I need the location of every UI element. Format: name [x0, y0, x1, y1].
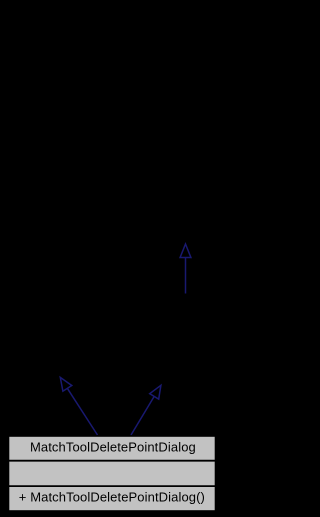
inheritance arrow (grandparent edge, vertical) — [180, 244, 191, 294]
compartment separator 1 — [8, 460, 216, 462]
compartment separator 2 — [8, 485, 216, 487]
inheritance arrow to right parent — [131, 385, 161, 435]
inheritance arrow to left parent — [60, 377, 97, 435]
class box MatchToolDeletePointDialog — [9, 436, 216, 511]
svg-text:+ MatchToolDeletePointDialog(): + MatchToolDeletePointDialog() — [19, 490, 205, 505]
svg-text:MatchToolDeletePointDialog: MatchToolDeletePointDialog — [30, 439, 196, 454]
